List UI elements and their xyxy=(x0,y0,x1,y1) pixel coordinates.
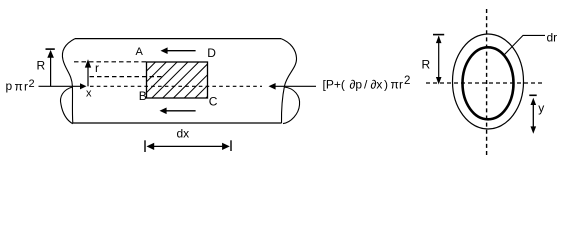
y dimension shaft xyxy=(532,100,534,132)
r axis shaft xyxy=(87,67,89,86)
left pipe break curve xyxy=(62,39,75,124)
dx right arrowhead xyxy=(222,143,230,150)
svg-text:C: C xyxy=(209,95,218,109)
svg-text:π: π xyxy=(15,79,23,93)
bottom shear arrowhead xyxy=(160,108,167,115)
svg-text:y: y xyxy=(538,101,544,115)
dr leader line xyxy=(504,35,545,55)
pressure force arrowhead (x axis arrow) xyxy=(80,83,87,89)
svg-text:r: r xyxy=(399,77,403,91)
inner fluid circle xyxy=(463,47,514,119)
svg-text:R: R xyxy=(422,58,431,72)
dx dimension right tick xyxy=(230,140,232,151)
pipe bottom wall xyxy=(73,122,281,124)
svg-text:): ) xyxy=(384,77,388,91)
axis arrow from right label xyxy=(274,85,317,87)
top shear arrowhead xyxy=(161,47,168,54)
left pipe end-cap arc xyxy=(60,87,72,124)
right pipe end-cap arc xyxy=(283,87,300,124)
pipe top wall xyxy=(75,38,281,40)
axis left arrowhead xyxy=(269,83,276,90)
svg-text:x: x xyxy=(86,88,92,100)
svg-text:r: r xyxy=(95,61,99,75)
svg-text:2: 2 xyxy=(29,78,35,90)
pipe axis dashed centerline xyxy=(90,85,262,87)
svg-text:R: R xyxy=(37,59,46,73)
svg-text:dx: dx xyxy=(177,127,190,141)
svg-text:/: / xyxy=(364,77,368,91)
y down arrowhead xyxy=(531,126,537,133)
dashed line at element top level xyxy=(74,61,147,63)
svg-text:2: 2 xyxy=(404,75,410,87)
fluid element ABCD hatched xyxy=(120,62,242,98)
svg-text:∂p: ∂p xyxy=(350,77,363,91)
y dimension top bar xyxy=(529,94,536,96)
cross-section horizontal dashed axis xyxy=(426,82,544,84)
svg-text:π: π xyxy=(391,77,399,91)
y up arrowhead xyxy=(531,98,537,105)
R dimension shaft (right) xyxy=(438,37,440,83)
cross-section vertical dashed axis xyxy=(486,9,488,157)
svg-text:p: p xyxy=(6,79,13,93)
svg-text:r: r xyxy=(24,79,28,93)
svg-text:dr: dr xyxy=(547,30,558,44)
dx dimension left tick xyxy=(144,140,146,152)
R down arrowhead (right) xyxy=(436,77,442,85)
top shear arrow line xyxy=(166,50,196,52)
svg-text:B: B xyxy=(139,89,147,103)
R up arrowhead (right) xyxy=(436,36,442,44)
R dimension top bar (right) xyxy=(433,34,444,36)
dashed line mid level xyxy=(90,76,164,78)
svg-text:[P+(: [P+( xyxy=(323,77,345,91)
dx left arrowhead xyxy=(147,143,155,150)
svg-text:D: D xyxy=(207,46,216,60)
R dimension top bar xyxy=(46,48,55,50)
right pipe break curve xyxy=(281,39,297,124)
r axis arrowhead xyxy=(85,59,91,67)
svg-text:A: A xyxy=(136,46,144,58)
outer pipe circle xyxy=(453,34,524,129)
R dimension arrowhead xyxy=(47,50,54,58)
pressure force leader line xyxy=(39,85,81,87)
svg-text:∂x: ∂x xyxy=(371,77,383,91)
bottom shear arrow line xyxy=(165,110,196,112)
R dimension shaft xyxy=(50,52,52,87)
dx dimension line xyxy=(151,145,225,147)
